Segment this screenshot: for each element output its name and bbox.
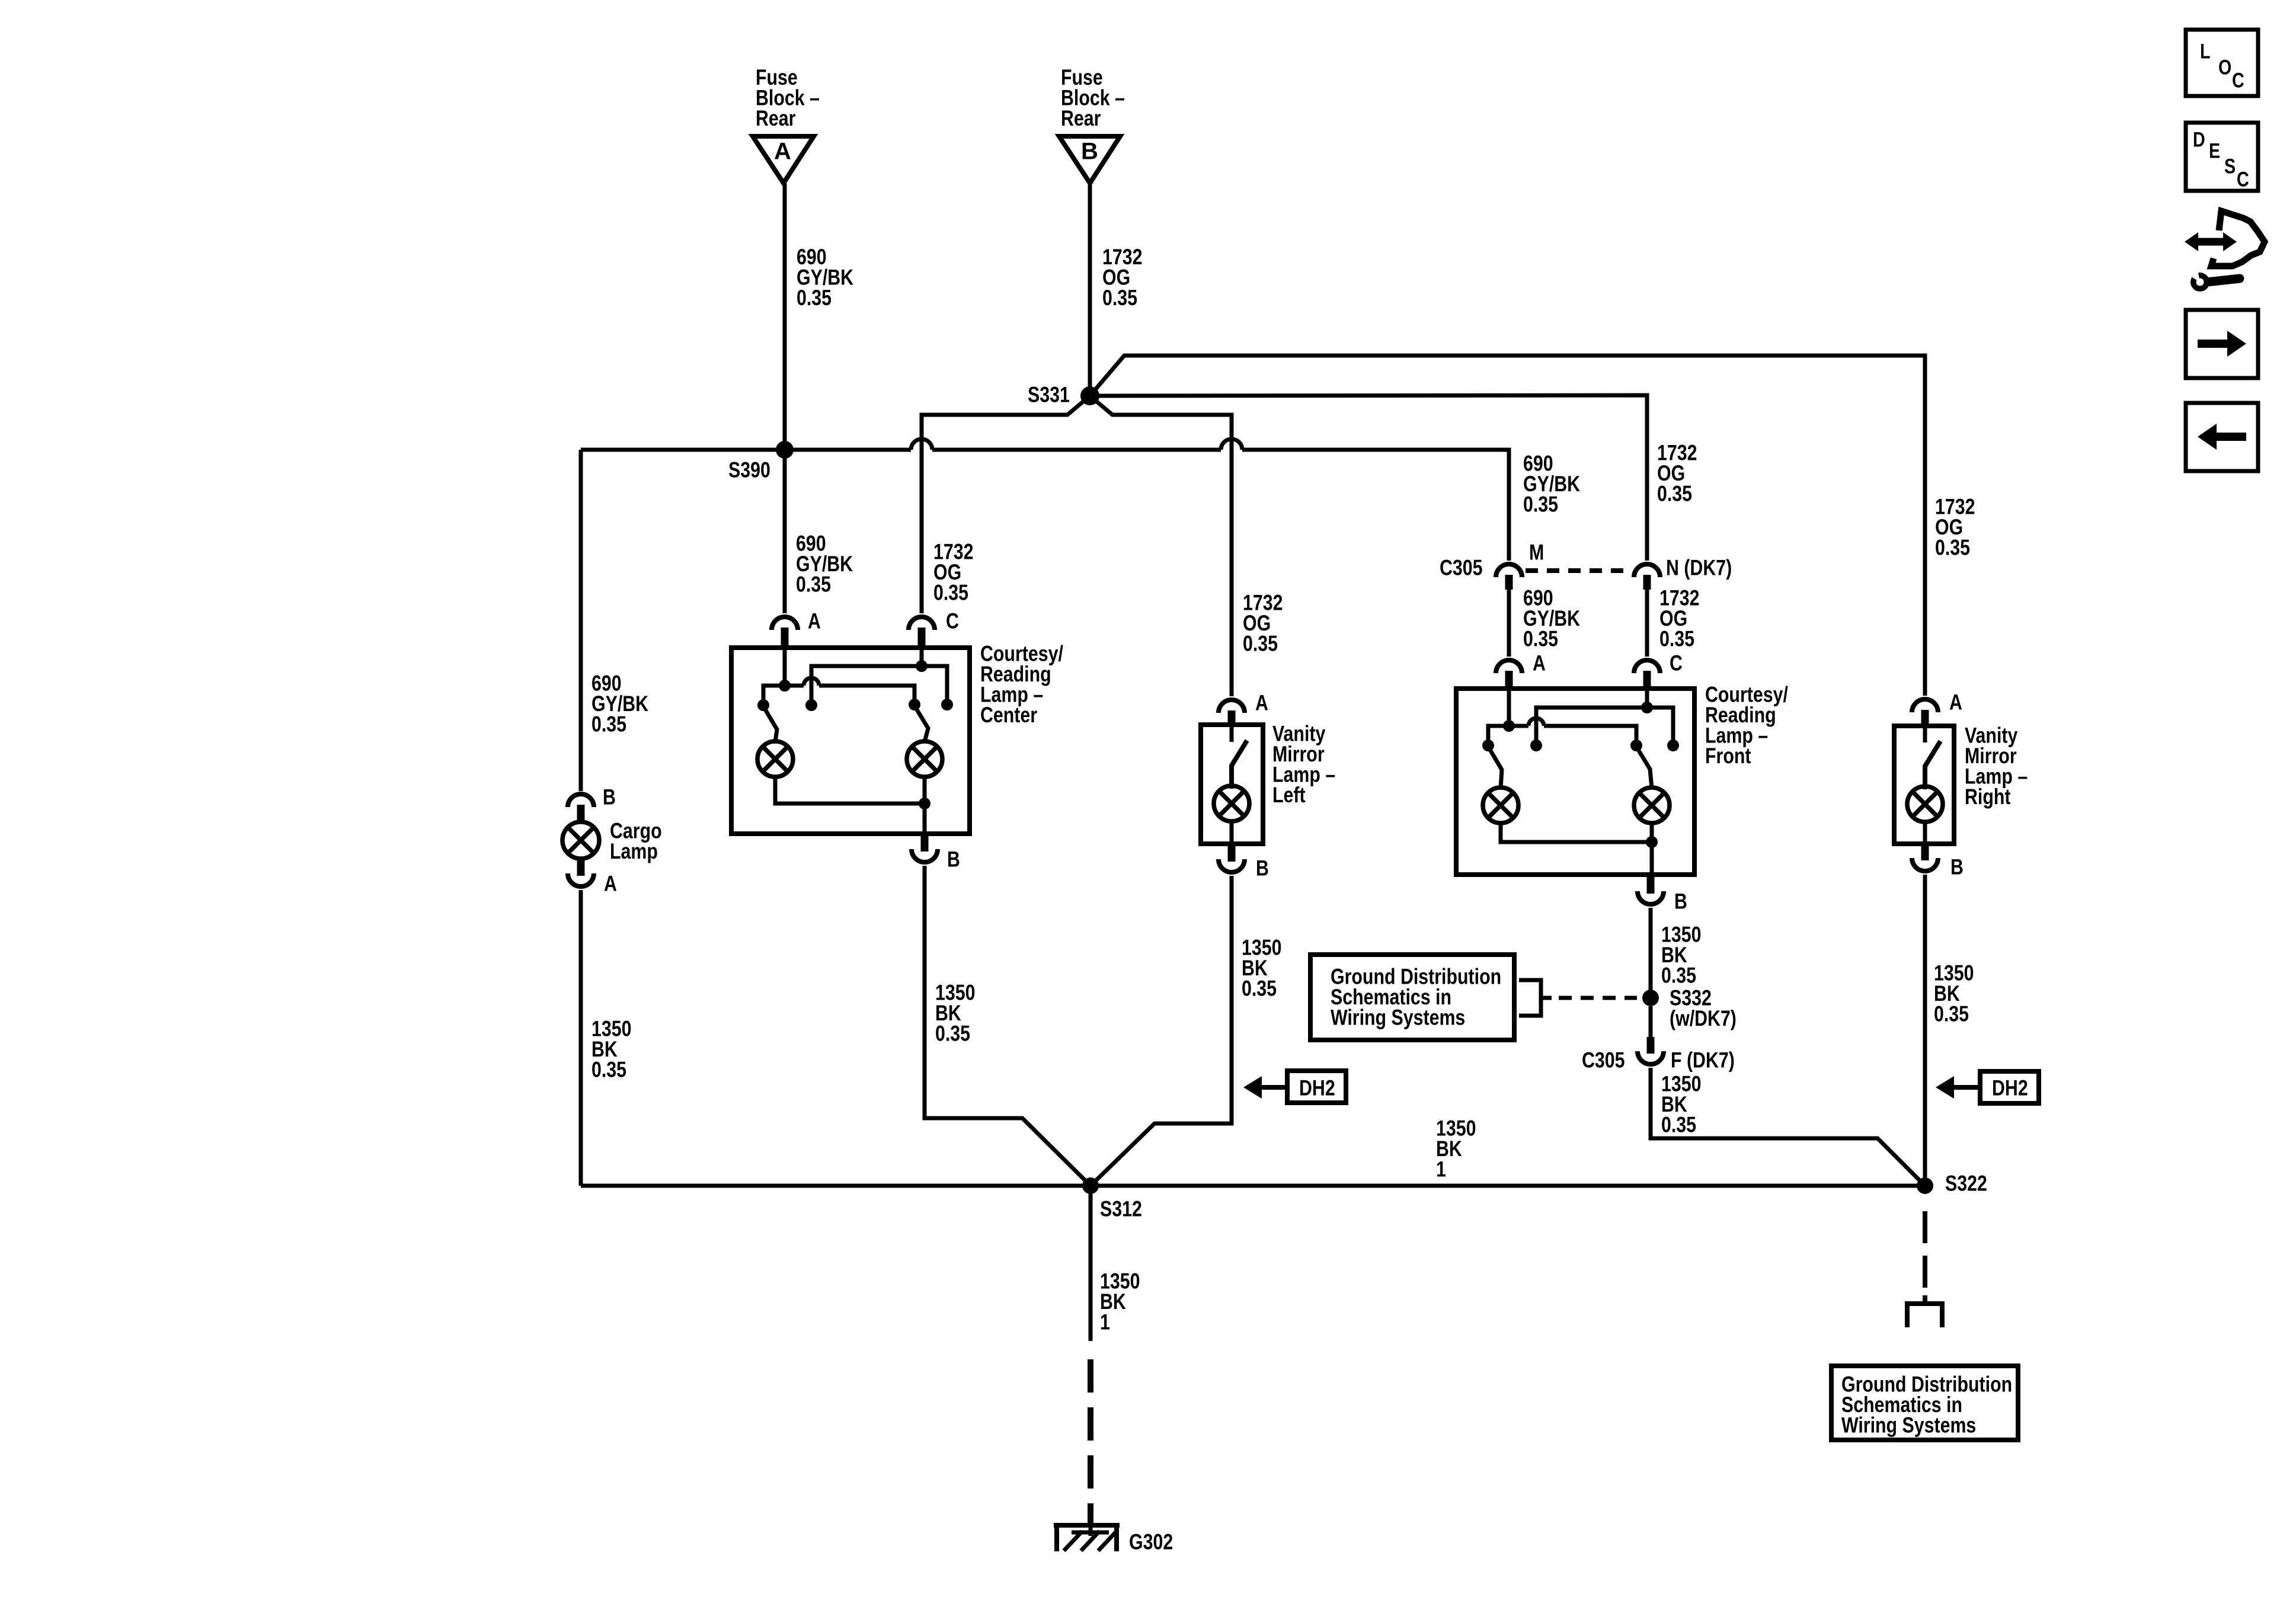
- ground G302: [1054, 1523, 1173, 1554]
- wire S331 to vanity right (top run): [1090, 356, 1925, 696]
- vanity mirror lamp right: pin A connector: [1912, 690, 1962, 726]
- vanity right bulb: [1907, 786, 1943, 822]
- svg-text:0.35: 0.35: [1661, 1113, 1696, 1138]
- svg-text:0.35: 0.35: [1657, 482, 1692, 507]
- vanity mirror lamp left: pin A connector: [1219, 691, 1268, 725]
- value label 1350 BK 0.35 (cargo lamp ground): [591, 1017, 631, 1083]
- front lamp internal wiring: [1482, 689, 1679, 788]
- svg-text:A: A: [1255, 691, 1268, 716]
- svg-text:E: E: [2209, 139, 2220, 162]
- svg-text:Lamp: Lamp: [610, 839, 658, 864]
- courtesy/reading lamp center box: [731, 648, 970, 834]
- value label 1732 OG 0.35 (center lamp C wire): [933, 540, 973, 606]
- connector C305 pin M: [1440, 540, 1544, 590]
- connector C305 pin N (DK7): [1634, 556, 1732, 590]
- fuse block B label: [1061, 65, 1125, 131]
- svg-text:S: S: [2224, 155, 2236, 178]
- svg-text:DH2: DH2: [1299, 1076, 1335, 1101]
- wire 1350 BK F to S322: [1651, 1068, 1925, 1186]
- value label 690 GY/BK 0.35 (fuse A wire): [797, 245, 854, 311]
- splice S312: [1082, 1177, 1142, 1221]
- svg-text:B: B: [603, 785, 616, 810]
- svg-text:B: B: [1950, 855, 1964, 880]
- DESC icon box: [2186, 123, 2258, 191]
- svg-text:B: B: [1081, 139, 1098, 165]
- svg-text:0.35: 0.35: [1935, 536, 1970, 561]
- svg-text:Right: Right: [1965, 785, 2010, 809]
- front lamp bulb return wiring: [1501, 823, 1658, 875]
- vanity mirror lamp right: pin B connector: [1912, 844, 1964, 879]
- svg-text:G302: G302: [1129, 1530, 1173, 1555]
- svg-text:0.35: 0.35: [1934, 1002, 1969, 1027]
- value label 1732 OG 0.35 (wire above N): [1657, 441, 1697, 507]
- wire N to front lamp C: [1645, 590, 1649, 657]
- svg-text:0.35: 0.35: [591, 712, 626, 737]
- svg-text:0.35: 0.35: [933, 581, 968, 606]
- courtesy/reading lamp front: pin B connector: [1638, 875, 1687, 914]
- value label 1350 BK 0.35 (front lamp ground): [1661, 923, 1701, 988]
- svg-text:C305: C305: [1582, 1048, 1625, 1073]
- value label 1350 BK 1 (bus): [1436, 1116, 1476, 1182]
- wire 1350 BK vanity right to S322: [1923, 875, 1927, 1186]
- ground distribution reference box (S332): [1310, 955, 1514, 1040]
- vanity right switch: [1925, 726, 1939, 787]
- courtesy/reading lamp front label: [1705, 683, 1788, 769]
- cargo lamp pin A connector: [568, 858, 617, 896]
- svg-text:0.35: 0.35: [1523, 627, 1558, 652]
- DH2 reference (left): [1243, 1071, 1346, 1103]
- value label 1350 BK 0.35 (F wire): [1661, 1072, 1701, 1138]
- svg-text:Wiring Systems: Wiring Systems: [1841, 1413, 1976, 1438]
- value label 1350 BK 0.35 (center lamp ground): [935, 981, 975, 1046]
- wire S331 to N connector: [1090, 395, 1647, 561]
- center lamp bulb return wiring: [775, 777, 930, 834]
- wire 1350 BK cargo lamp to S312 bus: [579, 890, 583, 1186]
- wire 690 GY/BK fuse A to S390: [783, 183, 787, 450]
- wire 1350 BK center lamp B to S312: [925, 866, 1091, 1186]
- svg-text:A: A: [604, 872, 617, 897]
- vanity mirror lamp left box: [1201, 725, 1263, 844]
- center lamp internal wiring: [757, 648, 953, 742]
- wire S390 horizontal run: [581, 439, 1509, 561]
- C305 harness dashed tie M-N: [1526, 568, 1632, 573]
- forward arrow icon box: [2186, 310, 2258, 378]
- schematic section icon (harness and wrench): [2185, 211, 2265, 292]
- svg-text:S312: S312: [1100, 1197, 1142, 1222]
- svg-text:D: D: [2193, 128, 2205, 151]
- wire M to front lamp A: [1507, 590, 1511, 657]
- svg-text:B: B: [1256, 856, 1269, 881]
- svg-text:0.35: 0.35: [1523, 492, 1558, 517]
- reference bracket and dashed tie to S332: [1519, 980, 1637, 1016]
- value label 1350 BK 0.35 (vanity right ground): [1934, 961, 1974, 1027]
- DH2 reference (right): [1936, 1071, 2039, 1103]
- front lamp left bulb: [1483, 788, 1518, 823]
- dashed tie S322 to ground distribution reference: [1907, 1211, 1942, 1327]
- courtesy/reading lamp center: pin A connector: [772, 609, 821, 648]
- svg-text:A: A: [1949, 690, 1962, 715]
- svg-text:B: B: [1674, 889, 1687, 914]
- svg-text:O: O: [2218, 56, 2231, 79]
- splice S322: [1917, 1172, 1987, 1196]
- center lamp right bulb: [907, 741, 942, 777]
- courtesy/reading lamp center: pin C connector: [909, 609, 959, 648]
- wire 1350 BK vanity left to S312: [1091, 876, 1232, 1186]
- svg-text:1: 1: [1436, 1157, 1446, 1182]
- svg-text:B: B: [947, 847, 960, 872]
- value label 1732 OG 0.35 (N to C): [1659, 586, 1699, 652]
- cargo lamp: [562, 819, 662, 864]
- svg-text:0.35: 0.35: [1242, 977, 1277, 1001]
- value label 690 GY/BK 0.35 (fuse block wire above M): [1523, 452, 1581, 517]
- svg-text:C: C: [2232, 69, 2244, 92]
- svg-text:Front: Front: [1705, 744, 1751, 769]
- svg-text:0.35: 0.35: [797, 286, 832, 311]
- vanity left bulb: [1214, 786, 1249, 821]
- front lamp right bulb: [1634, 788, 1670, 823]
- fuse block B triangle connector: [1059, 136, 1120, 183]
- ground distribution reference box (S322): [1831, 1366, 2018, 1440]
- svg-text:A: A: [774, 139, 791, 165]
- svg-text:0.35: 0.35: [591, 1058, 626, 1083]
- svg-text:(w/DK7): (w/DK7): [1670, 1006, 1737, 1031]
- courtesy/reading lamp front: pin A connector: [1496, 651, 1546, 689]
- value label 690 GY/BK 0.35 (cargo lamp feed): [591, 671, 649, 737]
- wire 1350 BK 1 S312 to G302: [1089, 1186, 1093, 1523]
- wire 1350 BK front lamp B to S332: [1649, 908, 1653, 998]
- svg-text:F (DK7): F (DK7): [1671, 1048, 1735, 1073]
- svg-text:0.35: 0.35: [935, 1022, 970, 1046]
- svg-text:Center: Center: [980, 703, 1037, 728]
- courtesy/reading lamp front box: [1456, 689, 1694, 875]
- fuse block A label: [756, 65, 820, 131]
- value label 1350 BK 0.35 (vanity left ground): [1242, 936, 1281, 1001]
- svg-text:Wiring Systems: Wiring Systems: [1331, 1006, 1465, 1030]
- svg-text:0.35: 0.35: [1243, 632, 1278, 657]
- back arrow icon box: [2186, 403, 2258, 471]
- svg-text:S322: S322: [1945, 1172, 1987, 1196]
- svg-text:Rear: Rear: [756, 106, 795, 131]
- svg-text:Rear: Rear: [1061, 106, 1101, 131]
- svg-text:0.35: 0.35: [1661, 964, 1696, 988]
- cargo lamp pin B connector: [568, 785, 616, 822]
- vanity mirror lamp left label: [1272, 722, 1335, 808]
- ground bus wire 1350 BK 1: [581, 1184, 1925, 1188]
- svg-text:C: C: [2237, 168, 2249, 191]
- splice S331: [1028, 383, 1099, 408]
- svg-text:DH2: DH2: [1992, 1076, 2028, 1101]
- center lamp left bulb: [757, 741, 793, 777]
- value label 690 GY/BK 0.35 (M to A): [1523, 586, 1581, 652]
- svg-text:S390: S390: [728, 458, 770, 483]
- value label 1350 BK 1 (G302 wire): [1100, 1269, 1140, 1335]
- svg-text:0.35: 0.35: [1659, 627, 1694, 652]
- svg-text:1: 1: [1100, 1310, 1110, 1335]
- connector C305 pin F (DK7): [1582, 1006, 1735, 1073]
- vanity left switch: [1232, 725, 1246, 786]
- fuse block A triangle connector: [753, 136, 814, 183]
- value label 690 GY/BK 0.35 (center lamp A wire): [796, 532, 853, 597]
- svg-text:A: A: [808, 609, 821, 634]
- vanity mirror lamp right label: [1965, 724, 2028, 809]
- LOC icon box: [2186, 30, 2258, 96]
- value label 1732 OG 0.35 (vanity left wire): [1243, 591, 1283, 657]
- wire S331 to vanity left A: [1090, 396, 1232, 439]
- svg-text:Left: Left: [1272, 783, 1306, 808]
- svg-text:S331: S331: [1028, 383, 1070, 408]
- vanity mirror lamp right box: [1894, 726, 1954, 844]
- wire S331 to center lamp C: [922, 396, 1090, 439]
- svg-text:C305: C305: [1440, 556, 1483, 581]
- svg-text:L: L: [2200, 40, 2211, 63]
- splice S332 (w/DK7): [1642, 986, 1737, 1031]
- wire 1732 OG fuse B to S331: [1088, 183, 1092, 396]
- svg-text:0.35: 0.35: [796, 572, 831, 597]
- svg-text:A: A: [1533, 651, 1546, 676]
- courtesy/reading lamp center: pin B connector: [912, 834, 960, 872]
- svg-text:0.35: 0.35: [1102, 286, 1137, 311]
- wire left rail down to cargo lamp: [579, 450, 583, 791]
- svg-text:C: C: [946, 609, 959, 634]
- svg-text:M: M: [1529, 540, 1544, 565]
- courtesy/reading lamp center label: [980, 642, 1063, 728]
- svg-text:N (DK7): N (DK7): [1666, 556, 1732, 581]
- value label 1732 OG 0.35 (fuse B wire): [1102, 245, 1142, 311]
- value label 1732 OG 0.35 (vanity right wire): [1935, 495, 1975, 561]
- wire S390 to center lamp A: [783, 450, 787, 613]
- splice S390: [728, 441, 794, 482]
- vanity mirror lamp left: pin B connector: [1219, 844, 1269, 881]
- svg-text:C: C: [1670, 651, 1683, 676]
- courtesy/reading lamp front: pin C connector: [1634, 651, 1683, 689]
